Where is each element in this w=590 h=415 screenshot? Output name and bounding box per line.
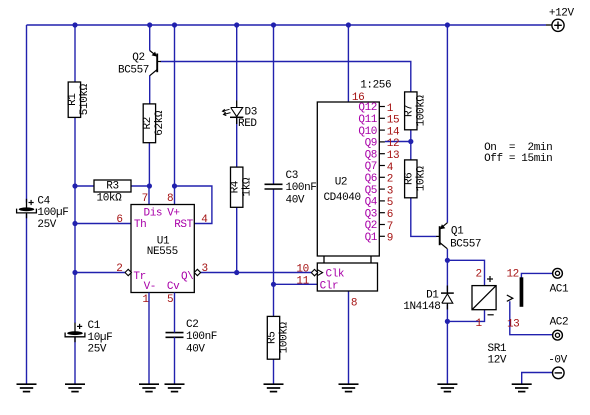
relay coil SR1 12V (472, 276, 507, 366)
wire R1 bottom to R3 node (74, 117, 76, 186)
svg-text:3: 3 (202, 263, 208, 275)
wire +12V top rail (27, 24, 547, 26)
svg-text:Q10: Q10 (358, 126, 377, 138)
wire left rail upper (to C4) (26, 25, 28, 203)
svg-text:Q3: Q3 (365, 208, 377, 220)
wire R3 left lead (75, 185, 94, 187)
wire Q2 emitter (149, 25, 151, 51)
U2 Clk pin diamond (311, 269, 317, 275)
resistor R3 10k (94, 180, 131, 204)
wire R4 bottom to Q output (236, 207, 238, 272)
junction (346, 22, 351, 27)
svg-text:Q8: Q8 (365, 149, 377, 161)
svg-text:1:256: 1:256 (360, 80, 391, 92)
capacitor C1 10uF (65, 320, 112, 356)
svg-text:40V: 40V (286, 194, 305, 206)
svg-text:13: 13 (507, 318, 519, 330)
svg-text:Q5: Q5 (365, 185, 377, 197)
svg-text:100nF: 100nF (186, 331, 217, 343)
svg-text:10kΩ: 10kΩ (97, 192, 123, 204)
svg-text:R5: R5 (266, 332, 278, 344)
wire Q2 base to R7 (161, 62, 411, 92)
svg-text:C2: C2 (186, 319, 198, 331)
svg-text:4: 4 (201, 214, 208, 226)
svg-text:15: 15 (387, 115, 399, 127)
svg-text:510kΩ: 510kΩ (79, 83, 91, 115)
capacitor C3 100nF (265, 170, 317, 206)
junction (271, 282, 276, 287)
wire switch pole to AC2 (510, 301, 553, 334)
svg-text:Off = 15min: Off = 15min (484, 153, 552, 165)
junction (445, 319, 450, 324)
svg-text:R2: R2 (142, 117, 154, 129)
wire Q1 collector to node (446, 249, 448, 260)
svg-text:10: 10 (296, 263, 308, 275)
svg-text:2: 2 (387, 174, 393, 186)
svg-text:5: 5 (167, 294, 173, 306)
ground (165, 384, 185, 391)
transistor Q1 BC557 (PNP) (436, 223, 481, 251)
svg-text:SR1: SR1 (488, 343, 507, 355)
svg-text:Q11: Q11 (358, 114, 377, 126)
U2 pin numbers (296, 92, 400, 309)
svg-text:On = 2min: On = 2min (484, 142, 552, 154)
U1 pin numbers (116, 193, 208, 306)
resistor R5 100k (266, 316, 290, 359)
wire R6 top (410, 142, 412, 160)
junction (147, 22, 152, 27)
svg-text:12: 12 (506, 269, 518, 281)
wire U2 pin16 to rail (347, 25, 349, 102)
ground (65, 384, 85, 391)
svg-text:40V: 40V (186, 343, 205, 355)
wire Tr (pin2) (75, 272, 125, 274)
wire C1 bottom to ground (74, 338, 76, 385)
junction (172, 183, 177, 188)
wire R5 bottom to ground (273, 359, 275, 384)
wire Th (pin6) (75, 223, 131, 225)
svg-text:6: 6 (116, 214, 122, 226)
svg-text:V+: V+ (167, 207, 179, 219)
junction (72, 270, 77, 275)
wire R1 top (74, 25, 76, 82)
svg-text:+12V: +12V (549, 8, 575, 20)
svg-text:RST: RST (174, 219, 193, 231)
wire node to relay top (447, 260, 484, 285)
svg-text:C3: C3 (286, 170, 298, 182)
wire Q2 collector to R2 (149, 76, 151, 104)
svg-text:U2: U2 (335, 176, 347, 188)
svg-text:Q4: Q4 (365, 197, 378, 209)
svg-text:16: 16 (352, 92, 364, 104)
wire left rail lower (C4 to ground) (26, 214, 28, 384)
svg-text:D3: D3 (245, 107, 257, 119)
junction (172, 22, 177, 27)
wire pin8 stub (174, 186, 176, 205)
svg-text:Q1: Q1 (365, 232, 378, 244)
wire R7 bottom (410, 130, 412, 142)
label 1:256 (360, 80, 391, 92)
svg-text:R4: R4 (230, 180, 242, 193)
wire Q output (pin3 to Clk) (201, 272, 312, 274)
ground (264, 384, 284, 391)
svg-text:8: 8 (351, 298, 357, 310)
svg-text:AC2: AC2 (550, 317, 569, 329)
svg-text:3: 3 (387, 185, 393, 197)
wire R6 bottom to Q1 base (411, 198, 437, 237)
svg-text:11: 11 (296, 275, 309, 287)
wire U1 pin1 to ground (148, 293, 150, 385)
svg-text:12V: 12V (488, 354, 507, 366)
junction (445, 258, 450, 263)
wire R2 bottom to node (148, 143, 150, 186)
diode D1 1N4148 (403, 286, 454, 313)
svg-text:C4: C4 (37, 195, 50, 207)
terminal +12V (549, 8, 575, 32)
wire C3 bottom to Clr node (273, 189, 275, 284)
IC U2 CD4040 counter (317, 102, 379, 293)
svg-text:RED: RED (238, 118, 257, 130)
svg-text:6: 6 (387, 209, 393, 221)
svg-text:10µF: 10µF (88, 332, 113, 344)
svg-text:Q9: Q9 (365, 138, 377, 150)
capacitor C2 100nF (166, 319, 218, 355)
wire D1 top lead (446, 260, 448, 291)
note On/Off times (484, 142, 552, 165)
junction (72, 183, 77, 188)
resistor R6 10k (404, 160, 428, 198)
resistor R2 62k (142, 104, 166, 143)
svg-text:13: 13 (387, 150, 399, 162)
svg-text:4: 4 (387, 162, 394, 174)
svg-text:1: 1 (387, 103, 394, 115)
ground (339, 384, 359, 391)
svg-text:8: 8 (167, 193, 173, 205)
wire pin7 stub (148, 186, 150, 205)
wire V+ column (rail to pin8 node) (174, 25, 176, 186)
svg-text:Cv: Cv (167, 281, 180, 293)
svg-text:Q1: Q1 (451, 225, 464, 237)
wire node column R1/Th/Tr (74, 186, 76, 323)
wire node to ground (446, 321, 448, 384)
wire U2 pin8 to ground (348, 291, 350, 384)
junction (445, 22, 450, 27)
svg-text:9: 9 (387, 233, 393, 245)
svg-text:14: 14 (387, 126, 400, 138)
junction (271, 22, 276, 27)
svg-text:Clr: Clr (320, 281, 339, 293)
relay pin numbers (475, 269, 482, 331)
wire switch contact to AC1 (521, 273, 552, 277)
junction (234, 270, 239, 275)
wire C2 bottom to ground (174, 337, 176, 384)
svg-text:Clk: Clk (326, 268, 345, 280)
svg-text:Q2: Q2 (365, 220, 377, 232)
resistor R7 100k (404, 92, 428, 130)
svg-text:100kΩ: 100kΩ (416, 95, 428, 127)
svg-text:5: 5 (387, 197, 393, 209)
capacitor C4 100uF (17, 195, 69, 231)
terminal -0V (548, 354, 567, 378)
svg-text:R3: R3 (106, 180, 118, 192)
junction (234, 22, 239, 27)
svg-text:1N4148: 1N4148 (403, 301, 440, 313)
wire RST loop (175, 186, 212, 224)
resistor R4 1k (230, 167, 254, 207)
svg-text:V-: V- (144, 281, 156, 293)
wire R3 right lead (131, 185, 149, 187)
U2 output pin stubs (379, 107, 385, 237)
wire -0V terminal to ground (522, 373, 553, 385)
svg-text:2: 2 (475, 269, 481, 281)
svg-text:-0V: -0V (548, 354, 567, 366)
svg-text:62kΩ: 62kΩ (154, 110, 166, 136)
U1 pin diamonds (125, 269, 201, 275)
svg-text:Q7: Q7 (365, 161, 377, 173)
svg-text:25V: 25V (88, 344, 107, 356)
svg-text:100µF: 100µF (37, 207, 68, 219)
svg-text:1kΩ: 1kΩ (242, 177, 254, 196)
wire Clr node to R5 (273, 284, 275, 316)
svg-text:100kΩ: 100kΩ (278, 322, 290, 354)
wire D1 bottom lead (446, 305, 448, 322)
svg-text:Q2: Q2 (132, 52, 144, 64)
resistor R1 510k (67, 82, 91, 117)
LED D3 RED (223, 101, 258, 130)
svg-text:Dis: Dis (144, 207, 163, 219)
op-amp U1 NE555 timer (131, 205, 194, 294)
switch pin numbers (506, 269, 519, 331)
wire Q9 to R7/R6 node (385, 141, 411, 143)
svg-text:12: 12 (387, 138, 399, 150)
junction (408, 139, 413, 144)
wire C3 top (273, 25, 275, 184)
terminal AC2 (550, 317, 569, 341)
svg-text:2: 2 (116, 263, 122, 275)
svg-text:25V: 25V (37, 219, 56, 231)
terminal AC1 (550, 268, 569, 295)
wire U1 pin5 to C2 (174, 293, 176, 333)
svg-text:Th: Th (134, 219, 146, 231)
svg-text:AC1: AC1 (550, 283, 569, 295)
svg-text:1: 1 (475, 318, 482, 330)
svg-text:C1: C1 (88, 320, 101, 332)
svg-text:R7: R7 (404, 105, 416, 117)
wire relay bottom to node (447, 310, 484, 322)
svg-text:7: 7 (387, 221, 393, 233)
junction (147, 183, 152, 188)
svg-text:R1: R1 (67, 93, 79, 106)
svg-text:7: 7 (142, 193, 148, 205)
ground (17, 384, 37, 391)
ground (139, 384, 159, 391)
wire D3 top (236, 25, 238, 101)
ground (437, 384, 457, 391)
transistor Q2 BC557 (PNP) (118, 51, 161, 77)
svg-text:R6: R6 (404, 173, 416, 185)
wire Q1 emitter (446, 25, 448, 223)
wire D3 to R4 (236, 117, 238, 167)
svg-text:BC557: BC557 (118, 65, 149, 77)
relay switch contact (507, 277, 524, 307)
svg-text:Q6: Q6 (365, 173, 377, 185)
svg-text:NE555: NE555 (147, 246, 178, 258)
wire +12V terminal lead (546, 24, 552, 26)
wire Clr (pin11) (274, 283, 318, 285)
svg-text:100nF: 100nF (286, 182, 317, 194)
svg-text:Q\: Q\ (181, 271, 193, 283)
svg-text:CD4040: CD4040 (323, 192, 360, 204)
junction (72, 22, 77, 27)
ground (512, 384, 532, 391)
junction (72, 221, 77, 226)
svg-text:10kΩ: 10kΩ (416, 166, 428, 192)
svg-text:BC557: BC557 (450, 239, 481, 251)
